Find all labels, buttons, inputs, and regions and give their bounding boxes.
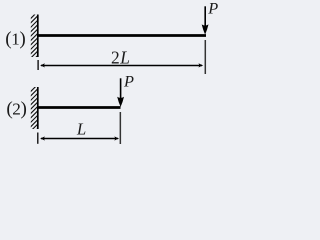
extension tick right (beam 2) (119, 112, 121, 144)
beam 2 (37, 106, 121, 109)
extension tick left (beam 1) (37, 60, 39, 70)
wall 2 hatching (29, 84, 38, 137)
beam 1 (37, 34, 206, 37)
dimension line 2L (40, 63, 203, 67)
extension tick right (beam 1) (204, 40, 206, 74)
load arrow P (beam 2) (117, 78, 124, 107)
svg-text:(2): (2) (6, 99, 27, 120)
dimension line L (40, 136, 119, 140)
svg-text:L: L (76, 119, 86, 138)
wall 2 face line (37, 87, 39, 129)
svg-text:(1): (1) (5, 28, 26, 49)
wall 1 face line (37, 15, 39, 58)
svg-text:2L: 2L (111, 47, 131, 67)
wall 1 hatching (29, 11, 38, 68)
svg-text:P: P (207, 0, 218, 18)
svg-text:P: P (123, 71, 134, 90)
load arrow P (beam 1) (202, 6, 209, 34)
extension tick left (beam 2) (37, 133, 39, 144)
